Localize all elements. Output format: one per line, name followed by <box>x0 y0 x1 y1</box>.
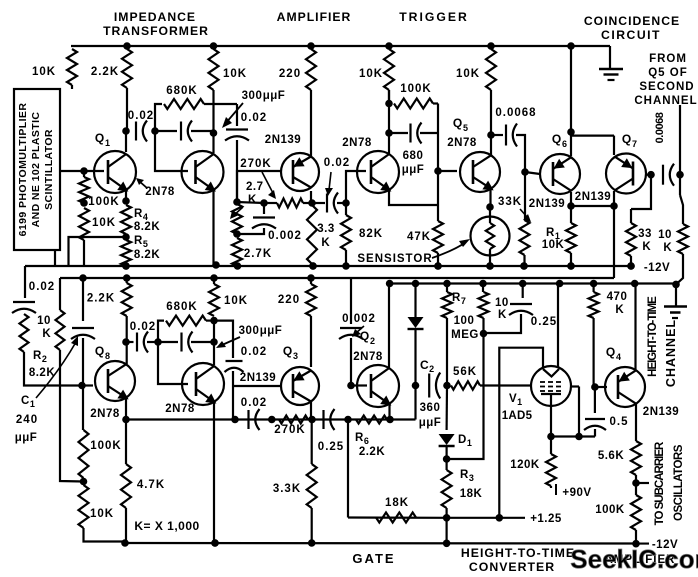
svg-text:220: 220 <box>279 68 301 80</box>
svg-text:Q: Q <box>95 131 105 145</box>
svg-text:2.7: 2.7 <box>246 181 264 193</box>
svg-text:CHANNEL: CHANNEL <box>634 95 697 107</box>
svg-text:100K: 100K <box>595 504 625 516</box>
svg-text:2N139: 2N139 <box>265 134 301 146</box>
svg-text:10K: 10K <box>542 239 565 251</box>
svg-text:Q: Q <box>283 344 293 358</box>
svg-text:33K: 33K <box>498 196 522 208</box>
svg-text:2N139: 2N139 <box>529 198 565 210</box>
svg-text:2N78: 2N78 <box>165 403 195 415</box>
svg-text:300: 300 <box>242 90 263 102</box>
svg-text:-12V: -12V <box>644 262 670 274</box>
svg-text:K: K <box>663 242 672 254</box>
svg-text:Q: Q <box>622 132 632 146</box>
svg-text:2N78: 2N78 <box>90 408 120 420</box>
svg-text:0.0068: 0.0068 <box>654 112 666 143</box>
svg-text:2N78: 2N78 <box>447 137 477 149</box>
svg-text:10K: 10K <box>92 217 116 229</box>
svg-text:6199 PHOTOMULTIPLIER: 6199 PHOTOMULTIPLIER <box>17 103 29 237</box>
svg-text:10: 10 <box>37 315 51 327</box>
svg-text:680: 680 <box>403 150 424 162</box>
svg-text:0.002: 0.002 <box>342 313 376 325</box>
svg-text:5.6K: 5.6K <box>598 450 624 462</box>
svg-text:3.3K: 3.3K <box>273 483 301 495</box>
svg-text:100K: 100K <box>88 196 120 208</box>
svg-text:680K: 680K <box>166 301 198 313</box>
svg-text:HEIGHT-TO-TIME: HEIGHT-TO-TIME <box>461 546 575 560</box>
svg-text:82K: 82K <box>359 228 383 240</box>
svg-text:GATE: GATE <box>352 551 395 566</box>
svg-text:CHANNEL: CHANNEL <box>664 319 678 387</box>
svg-text:0.002: 0.002 <box>268 230 302 242</box>
svg-text:220: 220 <box>278 294 300 306</box>
svg-text:SeekIC.com: SeekIC.com <box>570 544 698 574</box>
svg-text:+1.25: +1.25 <box>530 513 562 525</box>
svg-text:SCINTILLATOR: SCINTILLATOR <box>43 129 55 210</box>
svg-text:Q: Q <box>95 344 105 358</box>
svg-text:18K: 18K <box>460 488 483 500</box>
svg-text:2.7K: 2.7K <box>244 248 272 260</box>
svg-text:FROM: FROM <box>649 53 687 65</box>
svg-text:TRANSFORMER: TRANSFORMER <box>103 24 209 38</box>
svg-text:CIRCUIT: CIRCUIT <box>601 28 661 42</box>
svg-text:SENSISTOR: SENSISTOR <box>357 253 432 265</box>
svg-text:240: 240 <box>16 414 38 426</box>
svg-text:6: 6 <box>562 139 568 149</box>
svg-text:2N78: 2N78 <box>145 186 175 198</box>
svg-text:μμF: μμF <box>419 417 442 429</box>
svg-text:8.2K: 8.2K <box>134 249 160 261</box>
svg-text:HEIGHT-TO-TIME: HEIGHT-TO-TIME <box>647 296 659 377</box>
svg-text:SECOND: SECOND <box>639 81 694 93</box>
svg-text:270K: 270K <box>240 158 272 170</box>
svg-text:K: K <box>321 237 330 249</box>
svg-text:Q5 OF: Q5 OF <box>648 67 688 79</box>
svg-text:10K: 10K <box>32 66 56 78</box>
svg-text:4: 4 <box>616 352 622 362</box>
svg-text:10: 10 <box>658 229 672 241</box>
svg-text:0.02: 0.02 <box>29 281 55 293</box>
svg-text:μμF: μμF <box>260 325 283 337</box>
svg-text:10K: 10K <box>456 68 480 80</box>
svg-text:300: 300 <box>239 325 260 337</box>
svg-text:10K: 10K <box>90 508 114 520</box>
svg-text:470: 470 <box>607 291 628 303</box>
svg-text:0.25: 0.25 <box>531 316 557 328</box>
svg-text:0.02: 0.02 <box>128 110 154 122</box>
svg-text:CONVERTER: CONVERTER <box>469 560 555 574</box>
svg-text:K: K <box>42 328 51 340</box>
svg-text:μμF: μμF <box>263 90 286 102</box>
svg-text:360: 360 <box>420 402 441 414</box>
svg-text:0.02: 0.02 <box>241 346 267 358</box>
svg-text:3: 3 <box>293 351 299 361</box>
svg-text:K= X 1,000: K= X 1,000 <box>134 519 199 533</box>
svg-text:K: K <box>248 194 257 206</box>
svg-text:2N78: 2N78 <box>342 137 372 149</box>
svg-text:47K: 47K <box>407 231 431 243</box>
svg-text:AND NE 102 PLASTIC: AND NE 102 PLASTIC <box>30 112 42 228</box>
svg-text:TO SUBCARRIER: TO SUBCARRIER <box>654 441 666 525</box>
svg-text:K: K <box>642 241 651 253</box>
svg-text:8.2K: 8.2K <box>29 367 55 379</box>
svg-text:1AD5: 1AD5 <box>502 410 533 422</box>
svg-text:680K: 680K <box>166 85 198 97</box>
svg-text:1: 1 <box>105 138 111 148</box>
svg-text:μμF: μμF <box>402 164 425 176</box>
svg-text:5: 5 <box>463 123 469 133</box>
svg-text:2N139: 2N139 <box>575 191 611 203</box>
svg-text:2N139: 2N139 <box>240 372 276 384</box>
svg-text:0.5: 0.5 <box>610 416 629 428</box>
svg-text:10K: 10K <box>359 68 383 80</box>
svg-text:0.02: 0.02 <box>130 321 156 333</box>
svg-text:56K: 56K <box>453 366 477 378</box>
svg-text:8.2K: 8.2K <box>134 221 160 233</box>
svg-text:MEG: MEG <box>451 329 479 341</box>
svg-text:7: 7 <box>632 139 638 149</box>
svg-text:2: 2 <box>370 336 376 346</box>
svg-text:100K: 100K <box>90 440 122 452</box>
svg-text:2.2K: 2.2K <box>91 66 119 78</box>
svg-text:4.7K: 4.7K <box>137 479 165 491</box>
svg-text:100: 100 <box>454 315 475 327</box>
svg-text:100K: 100K <box>400 83 432 95</box>
svg-text:2.2K: 2.2K <box>87 293 115 305</box>
svg-text:0.25: 0.25 <box>318 441 344 453</box>
svg-text:OSCILLATORS: OSCILLATORS <box>673 444 685 521</box>
svg-text:2N78: 2N78 <box>353 351 383 363</box>
svg-text:18K: 18K <box>385 497 409 509</box>
svg-text:K: K <box>615 304 624 316</box>
svg-text:Q: Q <box>360 329 370 343</box>
svg-text:3.3: 3.3 <box>317 223 335 235</box>
svg-text:Q: Q <box>453 116 463 130</box>
svg-text:IMPEDANCE: IMPEDANCE <box>114 10 196 24</box>
svg-text:10K: 10K <box>223 68 247 80</box>
svg-text:μμF: μμF <box>15 432 38 444</box>
svg-text:120K: 120K <box>510 459 540 471</box>
svg-text:10: 10 <box>495 297 509 309</box>
svg-text:33: 33 <box>638 228 652 240</box>
svg-text:0.02: 0.02 <box>241 112 267 124</box>
svg-text:270K: 270K <box>274 424 306 436</box>
svg-text:0.02: 0.02 <box>324 157 350 169</box>
svg-text:AMPLIFIER: AMPLIFIER <box>277 10 352 24</box>
svg-text:8: 8 <box>105 351 111 361</box>
svg-text:+90V: +90V <box>562 487 591 499</box>
svg-text:2.2K: 2.2K <box>359 446 385 458</box>
svg-text:COINCIDENCE: COINCIDENCE <box>584 14 680 28</box>
svg-text:Q: Q <box>552 132 562 146</box>
svg-text:10K: 10K <box>224 295 248 307</box>
svg-text:0.02: 0.02 <box>241 397 267 409</box>
svg-text:K: K <box>498 309 507 321</box>
svg-text:Q: Q <box>606 345 616 359</box>
svg-text:0.0068: 0.0068 <box>495 107 536 119</box>
svg-text:TRIGGER: TRIGGER <box>399 10 469 24</box>
svg-text:2N139: 2N139 <box>643 406 679 418</box>
